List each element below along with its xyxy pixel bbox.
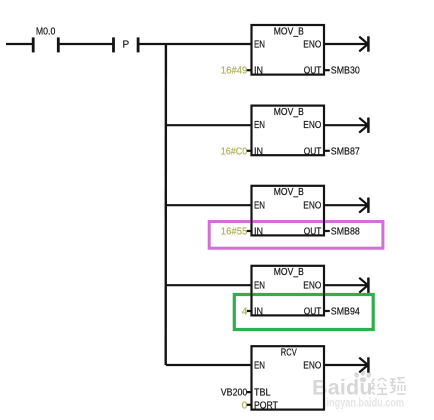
svg-text:OUT: OUT [304, 146, 322, 157]
dash PORT [247, 404, 252, 406]
svg-text:EN: EN [254, 40, 265, 51]
dash OUT block2 [324, 150, 330, 152]
dash OUT block3 [324, 230, 330, 232]
svg-text:SMB94: SMB94 [331, 307, 360, 318]
watermark hanzi jing [371, 378, 388, 395]
wire branch row4 [166, 284, 252, 286]
svg-text:TBL: TBL [254, 388, 271, 399]
wire ENO block4 [324, 284, 368, 286]
wire branch row3 [166, 204, 252, 206]
wire row1 to block1 [139, 43, 251, 45]
svg-text:VB200: VB200 [221, 388, 248, 399]
svg-text:ENO: ENO [303, 200, 321, 211]
svg-text:IN: IN [254, 146, 263, 157]
svg-text:MOV_B: MOV_B [274, 107, 304, 118]
dash OUT block4 [324, 310, 330, 312]
svg-text:ENO: ENO [303, 40, 321, 51]
contact M0.0 left bar [32, 37, 35, 52]
green highlight box [234, 295, 373, 330]
watermark hanzi yan [390, 378, 406, 395]
arrow terminal row5 [359, 357, 368, 372]
svg-text:16#49: 16#49 [221, 66, 248, 77]
RCV block 5 [252, 346, 325, 411]
dash TBL [247, 391, 252, 393]
MOV_B block 4 [252, 266, 325, 318]
svg-text:jingyan.baidu.com: jingyan.baidu.com [323, 397, 404, 409]
watermark paw print [353, 370, 372, 382]
svg-text:IN: IN [254, 227, 263, 238]
svg-text:SMB88: SMB88 [331, 227, 360, 238]
svg-text:EN: EN [254, 120, 265, 131]
svg-text:16#C0: 16#C0 [221, 146, 248, 157]
contact P right bar [137, 37, 140, 52]
wire between contacts [60, 43, 114, 45]
MOV_B block 3 [252, 186, 325, 238]
dash IN block1 [247, 69, 252, 71]
wire left segment row1 [6, 43, 33, 45]
svg-text:PORT: PORT [254, 400, 278, 411]
svg-text:OUT: OUT [304, 66, 322, 77]
arrow terminal row3 [359, 198, 368, 213]
svg-text:RCV: RCV [281, 348, 297, 359]
svg-text:M0.0: M0.0 [36, 26, 56, 37]
MOV_B block 1 [252, 25, 325, 77]
svg-text:MOV_B: MOV_B [274, 26, 304, 37]
contact M0.0 right bar [57, 37, 60, 52]
contact P left bar [112, 37, 115, 52]
svg-text:SMB30: SMB30 [331, 66, 360, 77]
svg-text:ENO: ENO [303, 280, 321, 291]
dash IN block2 [247, 150, 252, 152]
svg-text:ENO: ENO [303, 361, 321, 372]
watermark Baidu jingyan [312, 370, 406, 409]
svg-text:MOV_B: MOV_B [274, 187, 304, 198]
svg-text:IN: IN [254, 66, 263, 77]
wire ENO block3 [324, 204, 368, 206]
wire ENO block1 [324, 43, 368, 45]
wire branch row2 [166, 124, 252, 126]
svg-text:EN: EN [254, 361, 265, 372]
arrow terminal row4 [359, 278, 368, 293]
arrow terminal row2 [359, 118, 368, 133]
svg-text:IN: IN [254, 307, 263, 318]
dash IN block4 [247, 310, 252, 312]
pink highlight box [209, 222, 383, 249]
svg-text:OUT: OUT [304, 227, 322, 238]
svg-text:EN: EN [254, 200, 265, 211]
arrow terminal row1 [359, 36, 368, 51]
dash OUT block1 [324, 69, 330, 71]
MOV_B block 2 [252, 106, 325, 158]
svg-text:P: P [122, 39, 129, 50]
svg-text:MOV_B: MOV_B [274, 267, 304, 278]
svg-text:SMB87: SMB87 [331, 146, 360, 157]
svg-text:ENO: ENO [303, 120, 321, 131]
wire branch row5 [166, 364, 252, 366]
dash IN block3 [247, 230, 252, 232]
svg-text:EN: EN [254, 280, 265, 291]
wire ENO block5 [324, 364, 368, 366]
svg-text:16#55: 16#55 [221, 227, 248, 238]
svg-text:OUT: OUT [304, 307, 322, 318]
wire ENO block2 [324, 124, 368, 126]
vertical rail [164, 44, 167, 365]
